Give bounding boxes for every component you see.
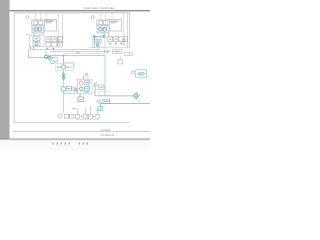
pump housing P1 (filled) [32,25,44,33]
bottom valve box W4 [83,115,87,119]
solenoid valve V4 [46,42,51,47]
wire: left frame stub [26,34,30,36]
balloon marker D1 (left) [26,16,29,19]
pilot valve box A2 [39,21,43,25]
wire: pump P1 case drain drop [42,33,44,36]
wire: relief drop teal [94,84,96,96]
bus label smudge [76,51,80,54]
wire: riser e [100,13,102,21]
filter circle F3 (teal) [80,87,84,91]
wire: gray tail right [70,66,73,68]
svg-text:CS-5M31-04: CS-5M31-04 [101,134,115,137]
wire: riser to W6 [96,109,98,115]
toolbar icon 7 [83,142,85,144]
wire: left drop teal b [32,47,34,50]
pump circle P2b [103,28,107,32]
check valve circle CK1 [62,74,65,77]
toolbar icon 2 [57,142,59,144]
right stub circle [94,83,97,86]
wire: riser a [35,13,37,21]
wire: bottom of right group [89,47,130,49]
junction cluster circles C1 [44,55,47,58]
wire: teal drop below valve [63,71,65,81]
status bar divider [0,139,150,140]
regulator module M2 [93,38,105,48]
wire: right group top rail [97,19,110,21]
wire: gray drop to filter [63,81,65,87]
wire: branch to right [63,93,77,95]
label smudge [85,91,90,94]
gear pump circle GP1 [79,81,83,85]
wire: pump P1 outlet drop (teal) [33,33,35,36]
LS label box (teal) [103,100,110,103]
toolbar icon 5 [69,142,71,144]
gauge box G1 [118,60,123,64]
page bottom edge line [13,130,150,133]
wire: riser d [58,13,60,45]
aux valve box AV1 [99,85,104,89]
svg-text:CS-5M31: CS-5M31 [101,129,112,132]
valve spool circle (teal) [62,65,66,69]
solenoid valve V1 [46,37,51,42]
status bar background [0,140,150,150]
pilot valve box B1 [99,21,103,25]
wire: teal left down-leg [28,50,30,58]
inline component on riser (right) [122,39,125,42]
node junction J4 [115,43,116,44]
wire: left drop teal a [30,47,32,50]
node junction J3 [110,43,111,44]
shelf line above frame bottom [76,119,99,121]
inline component on riser [57,39,60,42]
wire: teal stub up [82,76,84,79]
pilot valve box B2 [104,21,108,25]
label smudge LS2 [72,107,77,110]
toolbar icon 3 [61,142,63,144]
bottom valve box W1 [64,114,68,118]
small valve at stub [85,73,88,76]
wire: stub below LS line [99,103,101,111]
drain box DB1 (teal) [98,107,103,111]
wire: left group top rail [32,19,57,21]
wire: pilot drop teal [79,94,81,98]
node junction J7 [81,116,82,117]
wire: teal bus lower [46,55,105,57]
pilot control box PB2 (teal) [78,97,83,102]
svg-text:Control valve - Control valve: Control valve - Control valve [83,7,115,10]
pump housing P2 (filled) [97,25,109,33]
wire: riser h [123,13,125,45]
wire: teal feeder drop [45,50,47,56]
check valve diamond CV1 [133,93,140,99]
schematic frame [14,12,130,14]
wire: pump P2 outlet drop (teal) [103,33,105,35]
side box with node [74,88,77,91]
node junction J6 [68,116,69,117]
junction cluster circles C2 [48,56,51,59]
section divider line (right group right edge) [127,13,129,48]
wire: pump P2 case drain drop [108,33,110,37]
bottom filter circle F2 [58,114,62,118]
wire: teal vertical main right [104,56,106,96]
pump circle P1a [34,28,38,32]
section divider line (left group right edge) [62,13,64,45]
cooler box CO1 [66,86,71,91]
wire: gauge link [54,61,57,63]
solenoid valve V2 [52,37,57,42]
wire: gray bus short [63,53,104,55]
LS relay box above line [100,92,110,96]
motor circle MO1 (outside frame) [131,71,134,74]
pilot valve box A1 [34,21,38,25]
solenoid valve V5 [52,42,57,47]
node on teal bus [63,55,65,57]
wire: teal return run [29,57,58,59]
junction circle on LS line [98,100,101,103]
bottom valve box W5 [88,115,92,119]
bottom valve box W6 [95,115,99,119]
node junction J8 [93,116,94,117]
label box L2 with text [112,50,122,54]
check box K3 (teal) [85,87,90,91]
toolbar icon 4 [65,142,67,144]
relief valve box R1 [85,81,90,85]
toolbar icon 8 [87,142,89,144]
wire: riser b [40,13,42,21]
header divider [9,10,150,11]
wire: riser f [105,13,107,21]
wire: riser c [46,13,48,20]
solenoid valve V6 [58,42,62,47]
corner boxes pair [125,52,130,55]
balloon marker D2 (right) [91,16,94,19]
solenoid valve V8 [113,37,118,42]
valve box VB1 (outside frame) [136,70,147,78]
label box L1 [104,50,108,53]
solenoid valve V9 [119,37,124,42]
wire: teal bus upper [29,49,100,51]
node junction J5 [121,43,122,44]
pump circle P1b [38,28,42,32]
page background [0,0,150,150]
solenoid valve V7 [108,37,113,42]
wire: teal link with junctions [94,35,105,37]
wire: riser to W5 [89,106,91,115]
wire: teal horizontal long to edge [100,102,150,104]
wire: right group left drop [96,20,98,26]
wire: teal center drop [63,56,65,65]
toolbar icon 1 [53,142,55,144]
sidebar edge shadow [9,0,10,139]
node junction J1 [47,48,48,49]
left sidebar panel [0,0,9,139]
wire: teal dash right [66,66,70,68]
solenoid valve V10 [124,37,127,42]
wire: teal dash left [57,66,62,68]
wire: left group left drop [31,20,33,26]
pump circle P2a [99,28,103,32]
wire: riser to W3 [77,109,79,115]
wire: gray stub up [87,76,89,79]
gauge circle C3 [51,60,55,64]
check valve circle CK2 [62,77,65,80]
toolbar icon 6 [79,142,81,144]
tank box T1 [72,87,76,90]
bottom valve box W2 [70,114,74,118]
wire: gauge drop [56,58,58,63]
wire: drop to gauge [119,56,121,60]
controller box U2 with label [109,20,121,31]
filter circle F1 [61,87,65,91]
wire: long center drop [62,91,64,113]
wire: gray bus long [50,51,111,53]
pump unit enclosure E3 [78,79,93,93]
wire: riser g [111,13,113,20]
wire: riser to W4 [84,109,86,115]
solenoid valve V3 [58,37,62,42]
controller box U1 with label [44,20,56,31]
wire: gray L-branch [64,61,75,63]
bottom valve box W3 [76,115,80,119]
node junction J2 [53,48,54,49]
wire: diamond stem [135,91,137,100]
regulator module M1 [30,36,44,47]
wire: teal horizontal to check valve [95,95,133,97]
directional valve block DV1 (wide) [56,64,74,71]
